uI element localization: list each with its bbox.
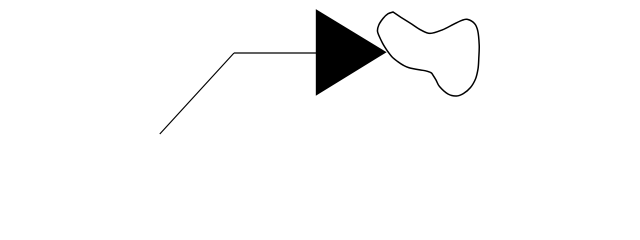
blob (freeform cloud shape) [377,12,479,96]
wire (diagonal segment) [160,53,234,134]
wire (horizontal segment) [234,52,317,54]
buffer / arrowhead triangle [316,9,387,96]
